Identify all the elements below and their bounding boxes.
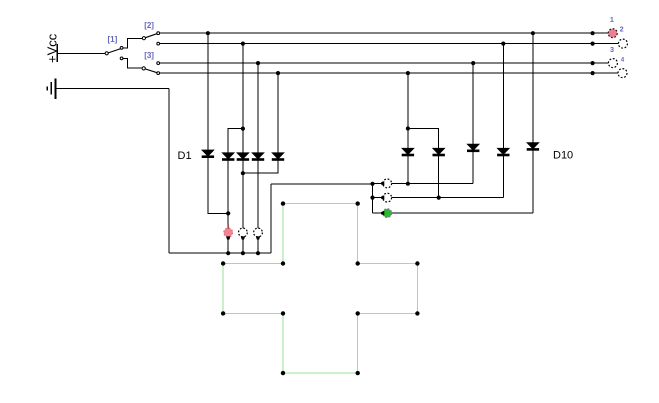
switch S3 lower throw contact xyxy=(157,72,160,75)
wire LED4 row xyxy=(373,183,474,185)
junction rail4 near terminal xyxy=(591,71,595,75)
wire D1c cathode to LED2 xyxy=(242,159,244,229)
terminal 4 xyxy=(618,69,627,78)
wire rail4 drop to diode D10a xyxy=(407,73,409,148)
node cross top-left xyxy=(281,201,285,205)
wire D10d cathode to LED5 line right end xyxy=(502,155,504,198)
wire LED bus vertical xyxy=(372,184,374,213)
wire jog to diode D1b xyxy=(228,129,243,153)
switch S3 common contact xyxy=(142,67,145,70)
junction rail2 at D10d drop xyxy=(501,42,505,46)
wire bottom rail left block xyxy=(169,252,271,254)
diode D1a xyxy=(202,150,213,157)
+Vcc terminal bar xyxy=(56,44,58,62)
junction rail2 near terminal xyxy=(591,42,595,46)
svg-text:1: 1 xyxy=(610,15,614,24)
node cross bottom-right xyxy=(356,371,360,375)
wire S1 lower throw to S3 xyxy=(123,58,142,68)
wire D1a cathode down and jog right xyxy=(208,157,228,214)
junction LED5 row at D10b xyxy=(437,196,441,200)
wire LED5 row xyxy=(373,197,504,199)
wire rail1 drop to diode D10e xyxy=(532,33,534,143)
switch S3 blade xyxy=(145,69,157,73)
junction LED bus mid xyxy=(370,196,374,200)
green cross wire shape xyxy=(223,204,417,374)
wire D10c cathode to LED4 line right end xyxy=(472,151,474,184)
junction D1 jog at D1c line xyxy=(241,127,245,131)
wire rail2 drop to diode D1c xyxy=(242,44,244,153)
terminal 3 xyxy=(608,59,617,68)
node cross inner right-top xyxy=(356,261,360,265)
wire pink LED to bottom rail xyxy=(227,237,229,254)
junction D10 jog at D10a line xyxy=(406,126,410,130)
wire LED3 to bottom rail xyxy=(257,237,259,254)
LED L4 off xyxy=(381,179,392,188)
wire LED6 row xyxy=(373,212,533,214)
diode D1d xyxy=(252,153,263,160)
diodes D1 row (anode top, cathode bar below) xyxy=(202,143,538,161)
diode D10b xyxy=(433,148,444,155)
svg-text:4: 4 xyxy=(621,57,625,64)
diode D1b xyxy=(223,153,234,160)
wire D10e cathode to LED6 line right end xyxy=(532,150,534,213)
terminal 2 xyxy=(618,39,627,48)
svg-text:[2]: [2] xyxy=(144,21,154,30)
junction LED bus top xyxy=(370,182,374,186)
svg-text:+Vcc: +Vcc xyxy=(45,33,60,63)
LED L6 lit green xyxy=(381,209,392,218)
wire rail4 drop to diode D1e xyxy=(277,73,279,153)
switch S3 upper throw contact xyxy=(157,62,160,65)
diode D10a xyxy=(402,148,413,155)
switch S1 blade xyxy=(108,49,121,53)
svg-text:D10: D10 xyxy=(553,150,573,162)
diode D10e xyxy=(527,143,538,150)
LED L5 off xyxy=(381,193,392,202)
wire LED bus feed horizontal xyxy=(271,183,373,185)
wire rail3 drop to diode D1d xyxy=(257,63,259,153)
wire S1 upper throw to S2 xyxy=(123,38,143,48)
junction rail1 near terminal xyxy=(591,31,595,35)
node cross inner left-bottom xyxy=(281,311,285,315)
svg-text:[1]: [1] xyxy=(108,35,118,44)
LED L3 off xyxy=(254,228,263,240)
LED L2 off xyxy=(239,228,248,240)
switch S2 blade xyxy=(145,34,157,38)
wire rail 3 xyxy=(160,62,609,64)
svg-text:3: 3 xyxy=(610,45,614,54)
junction D1a jog at D1b line xyxy=(226,211,230,215)
junction rail3 at D1 drop xyxy=(256,61,260,65)
junction rail1 at D10e drop xyxy=(531,31,535,35)
wire rail 1 xyxy=(160,32,609,34)
junction D1c cathode link xyxy=(241,171,245,175)
junction LED4 row at D10a xyxy=(406,182,410,186)
node cross right-arm top xyxy=(415,261,419,265)
switch S1 common contact xyxy=(105,52,108,55)
wire rail 4 xyxy=(160,72,618,74)
node cross inner left-top xyxy=(281,261,285,265)
junction bottom rail at LED2 xyxy=(241,251,245,255)
diode D10c xyxy=(468,144,479,151)
junction rail2 at D1 drop xyxy=(241,42,245,46)
junction rail3 at D10c drop xyxy=(471,61,475,65)
junction rail1 at D1 drop xyxy=(206,31,210,35)
svg-text:D1: D1 xyxy=(178,150,192,162)
wire LED2 to bottom rail xyxy=(242,237,244,254)
wire D10b cathode to LED5 line xyxy=(438,155,440,198)
svg-text:2: 2 xyxy=(620,25,624,34)
ground symbol xyxy=(47,78,55,99)
switch S1 lower throw contact xyxy=(120,57,123,60)
svg-text:[3]: [3] xyxy=(144,51,154,60)
wire rail3 drop to diode D10c xyxy=(472,63,474,144)
diode D1c xyxy=(237,153,248,160)
node cross top-right xyxy=(356,201,360,205)
wire +Vcc to switch S1 xyxy=(57,52,106,54)
junction bottom rail at LED3 xyxy=(256,251,260,255)
junction bottom rail at pink LED xyxy=(226,251,230,255)
node cross left-arm bottom xyxy=(221,311,225,315)
wire ground vertical drop xyxy=(168,89,170,254)
LED L1 lit pink xyxy=(224,224,233,239)
junction rail4 at D1 drop xyxy=(276,71,280,75)
switch S2 upper throw contact xyxy=(157,32,160,35)
node cross left-arm top xyxy=(221,261,225,265)
wire rail2 drop to diode D10d xyxy=(502,44,504,149)
wire D1e cathode link to D1c xyxy=(243,159,278,173)
switch S2 common contact xyxy=(142,37,145,40)
wire ground horizontal xyxy=(56,88,170,90)
wire D1b cathode to pink LED xyxy=(227,159,229,229)
switch S1 upper throw contact xyxy=(120,47,123,50)
terminal 1 (active, pink) xyxy=(608,29,617,38)
junction rail4 at D10a drop xyxy=(406,71,410,75)
diode D1e xyxy=(272,153,283,160)
wire D1d cathode to LED3 xyxy=(257,159,259,229)
node cross inner right-bottom xyxy=(356,311,360,315)
switch S2 lower throw contact xyxy=(157,42,160,45)
diode D10d xyxy=(498,148,509,155)
wire rail 2 xyxy=(160,43,619,45)
junction rail3 near terminal xyxy=(591,61,595,65)
wire D10a cathode to LED bus line xyxy=(407,155,409,184)
node cross bottom-left xyxy=(281,371,285,375)
node cross right-arm bottom xyxy=(415,311,419,315)
wire riser bottom to LED bus xyxy=(270,184,272,253)
wire jog to diode D10b xyxy=(408,129,439,149)
wire rail1 drop to diode D1a xyxy=(207,33,209,150)
